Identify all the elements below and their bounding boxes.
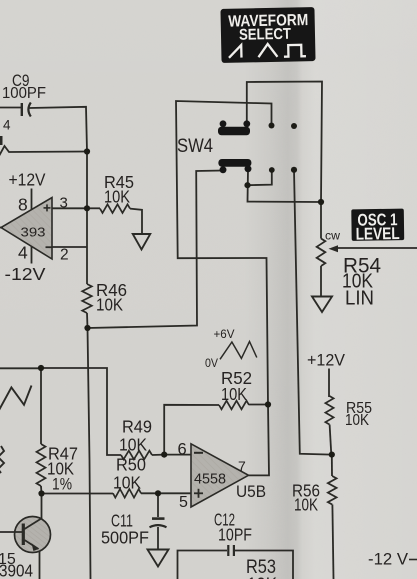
svg-text:500PF: 500PF xyxy=(101,528,149,548)
svg-text:2: 2 xyxy=(60,247,69,264)
svg-text:U5B: U5B xyxy=(236,482,266,501)
svg-text:4: 4 xyxy=(18,243,28,263)
svg-text:8: 8 xyxy=(18,195,28,215)
svg-text:-12V: -12V xyxy=(5,264,46,284)
svg-text:10K: 10K xyxy=(119,435,147,455)
svg-text:5: 5 xyxy=(179,494,188,511)
svg-text:3904: 3904 xyxy=(0,561,33,579)
svg-text:SW4: SW4 xyxy=(177,136,213,157)
svg-text:10PF: 10PF xyxy=(218,525,252,545)
svg-text:100PF: 100PF xyxy=(2,85,46,102)
svg-text:+12V: +12V xyxy=(307,352,345,370)
svg-text:LEVEL: LEVEL xyxy=(355,224,399,244)
svg-text:4558: 4558 xyxy=(194,472,226,488)
svg-text:7: 7 xyxy=(238,458,246,474)
svg-text:R49: R49 xyxy=(122,417,152,437)
svg-text:3: 3 xyxy=(60,195,68,212)
svg-text:10K: 10K xyxy=(294,495,318,515)
svg-text:10K: 10K xyxy=(221,384,247,404)
svg-text:cw: cw xyxy=(325,231,341,243)
svg-text:10K: 10K xyxy=(247,575,277,579)
svg-text:10K: 10K xyxy=(345,412,369,429)
svg-text:+6V: +6V xyxy=(214,327,235,341)
svg-text:10K: 10K xyxy=(113,473,141,493)
svg-text:R50: R50 xyxy=(116,455,146,475)
svg-text:10K: 10K xyxy=(104,187,130,207)
svg-text:393: 393 xyxy=(21,225,46,240)
svg-text:+12V: +12V xyxy=(9,170,46,190)
svg-text:1%: 1% xyxy=(52,476,72,494)
svg-text:10K: 10K xyxy=(96,295,123,315)
svg-text:0V: 0V xyxy=(205,356,218,370)
svg-text:SELECT: SELECT xyxy=(239,26,292,44)
svg-text:4: 4 xyxy=(3,118,12,133)
svg-text:6: 6 xyxy=(178,441,187,459)
svg-text:LIN: LIN xyxy=(345,288,374,310)
svg-text:-12 V: -12 V xyxy=(368,551,408,569)
